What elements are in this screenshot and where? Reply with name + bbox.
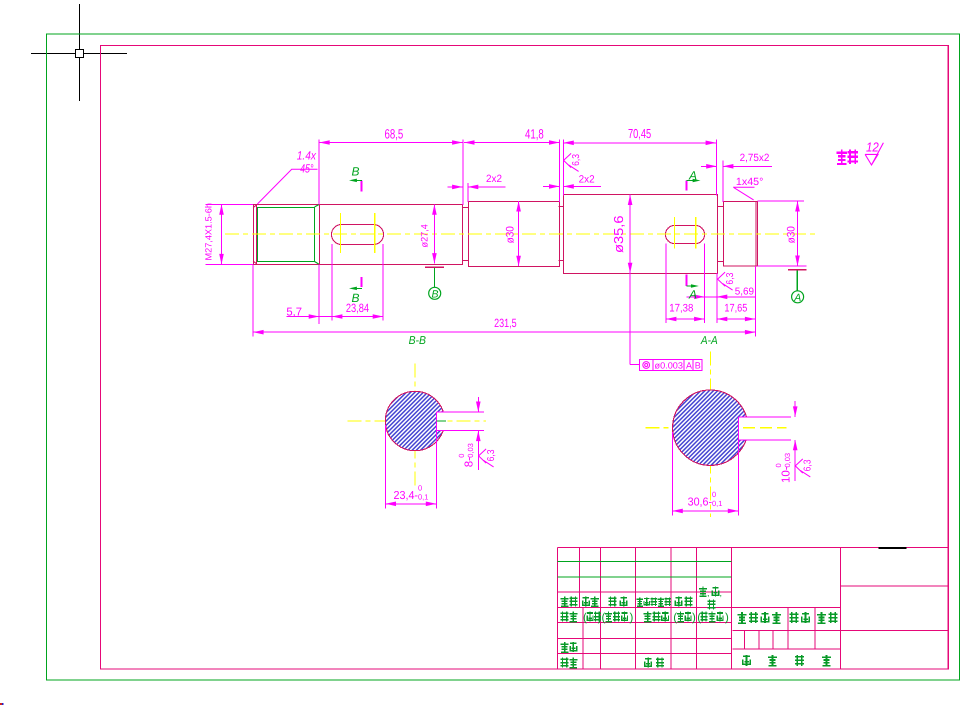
- title block text row: biaoji chushu fenqu: [561, 587, 719, 610]
- yellow centerline through B-B slot: [448, 420, 487, 422]
- bottom-left corner pixels: [0, 703, 2, 705]
- shaft section 3 (dia 30): [469, 202, 560, 267]
- dimension 70,45: [563, 141, 716, 146]
- A-A section view yellow centerlines: [645, 351, 786, 517]
- dimension 17,65: [717, 317, 756, 322]
- groove 1 (2x2): [463, 208, 469, 261]
- svg-text:0,03: 0,03: [783, 453, 792, 468]
- dimension 8 tol vertical: [476, 397, 481, 470]
- svg-text:2,75x2: 2,75x2: [740, 152, 770, 164]
- svg-text:17,38: 17,38: [669, 303, 693, 315]
- inner magenta border frame: [101, 46, 949, 669]
- svg-text:(: (: [602, 612, 606, 624]
- shaft section 4 (dia 35.6): [564, 195, 718, 274]
- svg-text:): ): [630, 612, 634, 624]
- dimension extension lines (magenta): [206, 140, 807, 337]
- general roughness symbol 12: [865, 143, 883, 165]
- svg-text:(: (: [697, 612, 701, 624]
- svg-text:): ): [725, 612, 729, 624]
- crosshair cursor: [31, 4, 127, 101]
- dimension 41,8: [464, 140, 560, 145]
- roughness symbol at B-B keyway: [479, 449, 497, 467]
- roughness symbol at groove 2: [564, 153, 582, 171]
- chamfer note 1.4x45 with leader: [257, 169, 317, 204]
- svg-text:A: A: [688, 169, 697, 183]
- title block text row: sheji qianming nianyueri biaozhunhua: [561, 612, 723, 622]
- svg-text:70,45: 70,45: [628, 126, 651, 141]
- dimension 30,6 tol: [672, 432, 738, 516]
- thread lines (green): [258, 205, 319, 265]
- svg-text:45°: 45°: [300, 162, 314, 176]
- svg-text:ø30: ø30: [785, 226, 797, 243]
- section cut mark A top: [685, 181, 687, 191]
- svg-text:A: A: [793, 292, 801, 304]
- title block green separator lines: [557, 561, 731, 577]
- dimension M27,4X1.5-6h: [219, 204, 224, 264]
- svg-text:5,7: 5,7: [286, 306, 302, 318]
- keyway 2 vertical centerlines (yellow): [673, 217, 675, 249]
- dimension dia 27,4: [432, 204, 437, 263]
- roughness symbol at A-A keyway: [795, 459, 813, 477]
- black revision mark on title block top edge: [879, 547, 907, 549]
- svg-text:68,5: 68,5: [385, 127, 404, 142]
- svg-text:A: A: [686, 360, 692, 370]
- dimension dia 35,6 with extension to tolerance frame: [628, 195, 640, 365]
- svg-text:B: B: [352, 164, 360, 178]
- svg-text:1x45°: 1x45°: [736, 176, 764, 188]
- dimension 2,75x2 groove: [701, 164, 772, 169]
- dimension dia 30 left: [516, 201, 521, 266]
- svg-text:2x2: 2x2: [486, 173, 502, 185]
- keyway slot 2: [666, 226, 705, 244]
- general roughness note: qiyu: [837, 150, 858, 165]
- title block text: gongyi / pizhun: [561, 658, 665, 668]
- svg-text:,: ,: [720, 588, 723, 598]
- svg-text:ø35,6: ø35,6: [611, 216, 626, 254]
- A-A section circle with hatch: [673, 390, 748, 465]
- svg-text:12: 12: [866, 139, 879, 154]
- shaft section 5 (dia 30 right, chamfered): [724, 202, 758, 267]
- svg-text:B: B: [432, 289, 439, 301]
- svg-text:ø27,4: ø27,4: [420, 224, 431, 247]
- groove 2 (2x2): [559, 207, 564, 261]
- svg-text:0: 0: [774, 463, 783, 467]
- A-A keyway slot (white notch): [738, 417, 791, 439]
- shaft section 2 body: [320, 205, 463, 265]
- B-B section circle with hatch: [385, 391, 444, 450]
- title block text: jieduanbiaoji zhongliang bili: [738, 612, 838, 623]
- svg-text:10-: 10-: [781, 466, 793, 483]
- svg-text:ø0.003: ø0.003: [655, 360, 684, 370]
- main centerline (yellow): [225, 233, 816, 235]
- dimension 17,38: [666, 317, 705, 322]
- dimension 68,5: [319, 140, 462, 145]
- svg-text:(: (: [583, 612, 587, 624]
- svg-text:,: ,: [707, 588, 710, 598]
- svg-text:B: B: [352, 291, 360, 305]
- chamfer note 1x45 with leader: [733, 187, 754, 200]
- keyway slot 1: [332, 225, 384, 245]
- dimension 5,69: [686, 295, 755, 300]
- section cut mark A bottom: [686, 275, 688, 286]
- svg-text:1.4x: 1.4x: [297, 149, 317, 163]
- title block grid lines: [557, 548, 948, 669]
- B-B section view yellow centerlines: [348, 363, 487, 486]
- svg-text:A-A: A-A: [700, 335, 718, 347]
- svg-text:0,03: 0,03: [466, 443, 475, 458]
- section cut mark B bottom: [361, 277, 363, 287]
- dimension 2x2 first groove: [448, 185, 506, 190]
- svg-text:M27,4X1.5-6h: M27,4X1.5-6h: [204, 203, 214, 261]
- svg-text:(: (: [673, 612, 677, 624]
- svg-text:0: 0: [457, 454, 466, 458]
- svg-text:B-B: B-B: [409, 335, 427, 347]
- svg-text:A: A: [688, 288, 697, 302]
- svg-text:17,65: 17,65: [724, 303, 747, 315]
- svg-text:231,5: 231,5: [494, 316, 517, 330]
- B-B keyway slot (white notch): [436, 412, 485, 430]
- dimension 23,84: [332, 314, 383, 319]
- svg-text:ø30: ø30: [505, 226, 517, 243]
- dimension 231,5: [253, 330, 755, 335]
- svg-text:2x2: 2x2: [579, 174, 595, 186]
- dimension 5,7: [286, 314, 332, 319]
- svg-text:0,1: 0,1: [712, 499, 722, 508]
- green datum segment on B-B centerline: [437, 420, 447, 422]
- dimension 2x2 second groove: [543, 184, 601, 189]
- title block text: gong zhang di zhang: [743, 655, 831, 666]
- datum B symbol: [425, 266, 444, 268]
- svg-text:5,69: 5,69: [735, 286, 755, 297]
- groove 3 (2.75x2): [718, 207, 724, 262]
- dimension 23,4 tol: [386, 425, 437, 509]
- svg-text:0: 0: [418, 484, 422, 493]
- svg-text:41,8: 41,8: [525, 127, 544, 142]
- dimension 10 tol vertical: [793, 401, 798, 481]
- roughness symbol right of keyway 2: [718, 272, 736, 290]
- dimension dia 30 right: [795, 201, 800, 266]
- shaft section 1 threaded M27.4: [254, 205, 320, 265]
- svg-text:23,4-: 23,4-: [394, 490, 419, 502]
- svg-text:B: B: [695, 360, 701, 370]
- svg-text:): ): [692, 612, 696, 624]
- title block text: shenhe: [561, 642, 577, 652]
- svg-text:0,1: 0,1: [418, 493, 428, 502]
- geometric tolerance frame: [640, 360, 703, 371]
- section cut mark B top: [361, 181, 363, 192]
- svg-text:0: 0: [712, 490, 716, 499]
- keyway 1 vertical centerlines (yellow): [340, 213, 695, 253]
- main shaft outline: [253, 195, 757, 274]
- yellow centerline through A-A slot: [743, 427, 786, 429]
- datum A symbol: [788, 269, 807, 271]
- svg-text:30,6-: 30,6-: [688, 497, 713, 509]
